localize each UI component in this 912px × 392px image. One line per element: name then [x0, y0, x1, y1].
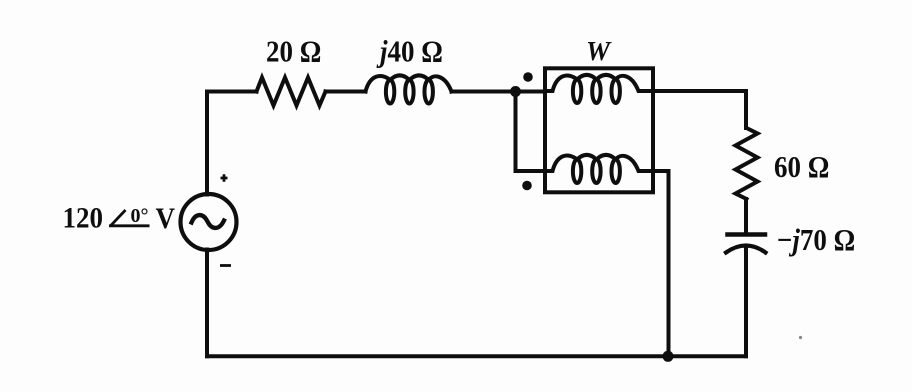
- capacitor C1 bottom plate: [726, 246, 766, 253]
- svg-text:20 Ω: 20 Ω: [266, 35, 321, 69]
- resistor R2 60ohm vertical: [736, 128, 758, 199]
- svg-text:60 Ω: 60 Ω: [774, 151, 829, 185]
- junction node bottom: [663, 351, 674, 362]
- wire capacitor to bottom: [744, 248, 748, 356]
- wire secondary out: [653, 171, 669, 356]
- polarity dot bottom: [522, 181, 532, 191]
- svg-text:V: V: [156, 203, 176, 235]
- source plus sign: [221, 174, 228, 181]
- svg-text:j40 Ω: j40 Ω: [376, 35, 443, 69]
- wire bottom horizontal: [207, 354, 746, 358]
- source sine wave: [192, 215, 225, 228]
- wire inductor to box: [452, 90, 546, 94]
- inductor L1 j40ohm: [366, 75, 452, 103]
- wire resistor to inductor: [326, 90, 366, 94]
- svg-text:W: W: [586, 36, 612, 66]
- svg-text:120: 120: [63, 203, 103, 235]
- polarity dot top: [523, 72, 533, 82]
- transformer secondary coil: [545, 155, 653, 183]
- junction node primary: [510, 86, 521, 97]
- wire top-left horizontal: [207, 90, 257, 94]
- svg-text:−j70 Ω: −j70 Ω: [777, 224, 855, 258]
- capacitor C1 top plate: [728, 232, 766, 237]
- transformer box W: [545, 68, 653, 192]
- svg-text:0°: 0°: [131, 205, 149, 227]
- wire jumper vertical: [516, 92, 546, 172]
- artifact dot: [799, 336, 802, 339]
- source V1 circle: [181, 194, 237, 250]
- transformer primary coil: [545, 75, 653, 103]
- wire resistor to capacitor: [744, 199, 748, 233]
- wire left vertical bottom: [205, 250, 209, 357]
- wire right vertical top: [744, 92, 748, 129]
- resistor R1 20ohm: [257, 78, 326, 106]
- wire box to right corner: [653, 89, 746, 93]
- wire left vertical top: [205, 92, 209, 195]
- source minus sign: [220, 264, 231, 267]
- angle symbol: [109, 210, 150, 226]
